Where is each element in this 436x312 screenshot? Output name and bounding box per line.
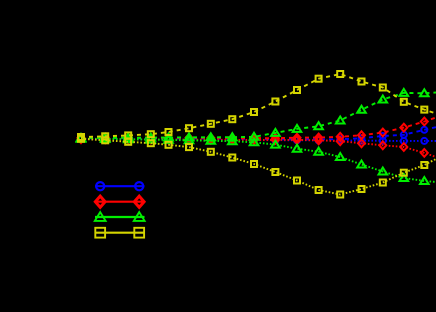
legend entry blue (open circles, solid line) (95, 182, 145, 190)
series blue dashed, open circle markers (78, 127, 436, 143)
legend entry red (open diamonds, solid line) (95, 196, 145, 207)
series yellow dotted, open square markers (78, 136, 436, 198)
series red dotted, open diamond markers (78, 135, 436, 157)
series red dashed, open diamond markers (78, 118, 436, 143)
series blue dotted, open circle markers (78, 136, 436, 144)
series green dashed, open triangle markers (77, 89, 436, 141)
legend entry yellow (open squares, solid line) (95, 228, 145, 238)
legend entry green (open triangles, solid line) (95, 212, 145, 221)
series green dotted, open triangle markers (77, 135, 436, 184)
series yellow dashed, open square markers (78, 71, 436, 140)
